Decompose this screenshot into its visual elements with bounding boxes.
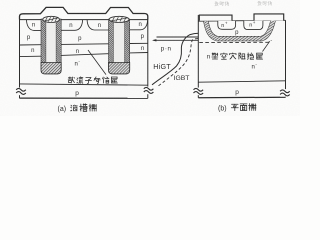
trench G1 top oxide cap bbox=[43, 16, 60, 22]
p-well junction hatched band (b) bbox=[206, 21, 273, 39]
n+ source pocket centre-left bbox=[61, 20, 82, 31]
planar gate electrode left (b) bbox=[199, 15, 232, 21]
paper noise overlay bbox=[0, 0, 300, 116]
leader line carrier storage layer bbox=[88, 50, 106, 75]
IGBT carrier profile curve (dashed) bbox=[159, 39, 199, 86]
trench gate G2: oxide walls bbox=[109, 18, 130, 62]
p-base / n-storage boundary (a) bbox=[20, 43, 148, 45]
n-/p boundary (b) bbox=[198, 81, 285, 82]
text 型空穴阻挡层 (n-type hole barrier layer) bbox=[212, 53, 263, 59]
bottom collector line (a) bbox=[20, 97, 148, 99]
leader line hole-barrier label bbox=[263, 41, 270, 51]
trench gate G1: hatched bottom plug bbox=[41, 63, 61, 74]
axis arrow p.n bbox=[152, 39, 198, 41]
caption 平面栅 (planar gate) bbox=[231, 103, 256, 110]
planar gate electrode right (b) bbox=[254, 14, 284, 21]
silicon surface (a) bbox=[20, 19, 148, 21]
trench gate G2: hatched bottom plug bbox=[109, 63, 130, 74]
trench G2 top oxide cap bbox=[109, 16, 129, 22]
n+ source pocket right cell bbox=[130, 20, 148, 30]
caption 沟槽栅 (trench gate) bbox=[70, 104, 96, 112]
n+ source bulge left (b) bbox=[218, 21, 236, 29]
n+ source pocket centre-right bbox=[87, 20, 108, 30]
HiGT carrier profile curve (solid) bbox=[152, 33, 199, 85]
bottom collector line (b) bbox=[198, 96, 285, 98]
figure (b) right edge bbox=[285, 20, 287, 97]
silicon surface (b) bbox=[198, 19, 285, 22]
break symbol right (b) bbox=[280, 89, 290, 97]
figure (a) left edge bbox=[19, 19, 21, 98]
dashed n hole-barrier boundary (b) bbox=[199, 40, 271, 42]
figure (b) silicon body bbox=[198, 21, 285, 98]
emitter metal electrode (a) bbox=[20, 7, 148, 19]
break symbol left (a) bbox=[16, 88, 26, 96]
figure (b) left edge bbox=[197, 15, 199, 98]
n+ source bulge right (b) bbox=[244, 21, 263, 30]
figure (a) silicon body bbox=[20, 20, 148, 99]
break symbol right (a) bbox=[144, 87, 154, 95]
text 载流子存储层 (carrier storage layer) bbox=[68, 77, 117, 84]
break symbol left (b) bbox=[193, 88, 203, 96]
trench gate G1: oxide walls bbox=[41, 18, 61, 62]
faint top annotation 1 bbox=[215, 2, 229, 6]
faint top annotation 2 bbox=[258, 1, 272, 5]
n+ source pocket left cell bbox=[27, 20, 42, 31]
n- drift / p-collector boundary (a) bbox=[20, 84, 148, 85]
figure (a) right edge bbox=[147, 19, 149, 98]
n-storage / n- drift boundary (a) bbox=[20, 53, 148, 57]
axis line upper bbox=[157, 36, 199, 38]
